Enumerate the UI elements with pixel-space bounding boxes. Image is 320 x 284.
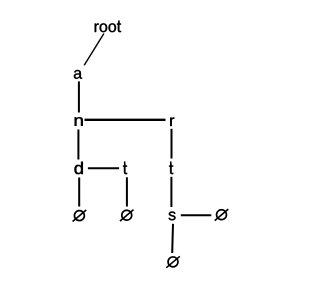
edge root-a [84,34,104,66]
edge d-t left [88,167,119,169]
node a [74,70,82,79]
node t right [169,161,173,174]
node n [75,117,83,126]
node d [74,162,82,174]
node root [95,20,121,32]
node r [170,117,174,126]
edge n-d [77,130,79,160]
node s [169,212,176,221]
edge t-s [170,177,172,207]
edge s-empty3 [181,214,212,216]
node empty4 [166,256,180,268]
edge a-n [78,81,80,112]
node empty3 [215,209,229,221]
edge r-t right [171,129,173,159]
edge d-empty1 [78,178,80,207]
node t left [123,161,127,174]
node empty2 [120,210,134,222]
edge n-r [85,119,166,121]
edge s-empty4 [171,224,174,253]
edge t-empty2 [126,177,128,206]
node empty1 [73,210,87,222]
